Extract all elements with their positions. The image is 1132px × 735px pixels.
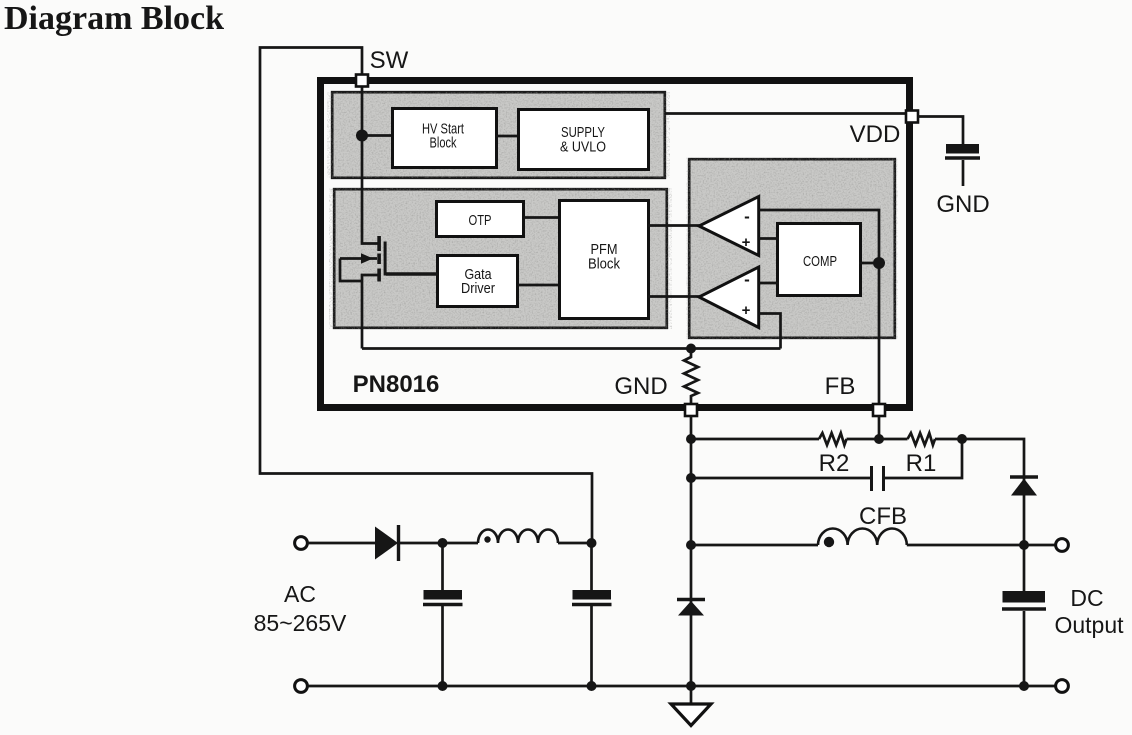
inductor L1 input <box>478 530 558 544</box>
pin FB <box>873 404 885 416</box>
svg-text:VDD: VDD <box>850 121 901 148</box>
node SW/C2 junction <box>587 538 597 548</box>
svg-text:R2: R2 <box>819 450 850 477</box>
body wire with arrow <box>340 257 377 260</box>
right gray box (comparator section) <box>689 159 895 338</box>
wire top feedback rail y439 <box>691 438 819 441</box>
wire SW external loop <box>260 48 592 544</box>
node bottom GND <box>686 681 696 691</box>
wire output rail y545 <box>691 544 818 547</box>
diode D1 input rectifier <box>375 525 399 561</box>
node mid rail left <box>686 473 696 483</box>
wire PFM to lower comparator <box>648 295 700 298</box>
IC PN8016 outline <box>321 81 910 408</box>
svg-text:Driver: Driver <box>461 280 495 297</box>
node output rail left <box>686 540 696 550</box>
svg-text:-: - <box>744 207 750 226</box>
wire HV Start to SUPPLY <box>496 135 518 138</box>
resistor R1 <box>908 433 936 445</box>
svg-text:DC: DC <box>1070 585 1103 611</box>
resistor Rsense vertical <box>684 349 698 405</box>
svg-text:PN8016: PN8016 <box>353 371 440 398</box>
node L2 phase dot <box>824 537 834 547</box>
block SUPPLY & UVLO <box>519 110 649 170</box>
gate bar <box>384 242 387 276</box>
op-amp U1 upper comparator <box>699 197 759 256</box>
node R1 right junction <box>957 434 967 444</box>
wire bottom rail <box>308 685 1056 688</box>
wire supply section to VDD pin <box>665 112 908 115</box>
terminal DC output + <box>1056 539 1069 552</box>
capacitor C-out <box>1002 545 1046 686</box>
upper gray box (startup section) <box>332 92 665 178</box>
diode D2 right (to output) <box>1010 477 1038 496</box>
node bottom C-out <box>1019 681 1029 691</box>
svg-text:+: + <box>742 234 751 251</box>
wire VDD pin to decoupling cap <box>918 117 963 146</box>
terminal DC output - <box>1056 680 1069 693</box>
svg-text:Diagram Block: Diagram Block <box>4 0 224 37</box>
svg-text:FB: FB <box>825 373 856 400</box>
wire lower comparator + input down to sense rail <box>759 314 781 349</box>
pin SW <box>356 75 368 87</box>
wire gate to Gate Driver <box>386 272 438 275</box>
node output/diode junction <box>1019 540 1029 550</box>
wire FB net: upper comparator minus input loop and down to FB pin <box>759 210 879 407</box>
node L1 phase dot <box>484 536 490 542</box>
pin GND <box>685 404 697 416</box>
node GND rail top <box>686 434 696 444</box>
block OTP <box>437 202 524 237</box>
capacitor C-vdd <box>945 144 980 186</box>
svg-text:Block: Block <box>588 256 620 273</box>
resistor R2 <box>819 433 847 445</box>
node COMP output junction <box>873 257 885 269</box>
wire Gate Driver to PFM <box>518 284 559 287</box>
terminal AC bottom <box>295 680 308 693</box>
block HV Start <box>393 109 497 168</box>
wire mid rail with CFB y478 <box>691 477 872 480</box>
node bottom C2 <box>587 681 597 691</box>
inductor L2 output <box>818 529 907 546</box>
svg-text:& UVLO: & UVLO <box>560 139 606 156</box>
wire COMP output to FB line <box>859 262 879 265</box>
svg-text:R1: R1 <box>906 450 937 477</box>
block Gate Driver <box>438 256 518 307</box>
transistor Q1 power MOSFET <box>340 236 387 349</box>
node C1 top junction <box>438 538 448 548</box>
ground symbol <box>671 686 711 726</box>
wire PFM to upper comparator <box>648 224 700 227</box>
wire COMP to upper comparator + input <box>759 237 779 240</box>
capacitor CFB <box>872 466 884 491</box>
svg-text:COMP: COMP <box>803 253 837 270</box>
svg-text:AC: AC <box>284 581 316 607</box>
block PFM Block <box>560 201 649 319</box>
source wire <box>362 275 378 349</box>
svg-text:CFB: CFB <box>859 503 907 530</box>
wire COMP to lower comparator - input <box>759 282 779 285</box>
node SW/HV junction <box>356 130 368 142</box>
wire SW pin to HV Start and MOSFET drain <box>362 80 391 244</box>
wire OTP to PFM <box>524 216 559 219</box>
svg-text:Output: Output <box>1054 612 1124 638</box>
svg-text:OTP: OTP <box>469 212 492 229</box>
capacitor C1 <box>423 543 463 686</box>
body-source loop <box>340 259 362 282</box>
pin VDD <box>906 111 918 123</box>
wire AC top rail <box>308 542 376 545</box>
svg-text:SW: SW <box>370 47 409 74</box>
terminal AC top <box>295 537 308 550</box>
channel dashes <box>377 236 381 251</box>
wire FB pin down to feedback rail <box>878 416 881 439</box>
svg-text:+: + <box>742 302 751 319</box>
svg-text:GND: GND <box>614 373 667 400</box>
svg-text:GND: GND <box>936 191 989 218</box>
svg-text:Block: Block <box>430 135 457 152</box>
wire source sense rail <box>362 347 781 350</box>
diode D3 freewheel (on GND line) <box>677 600 705 616</box>
capacitor C2 <box>572 543 612 686</box>
node sense rail / GND resistor junction <box>686 344 696 354</box>
block COMP <box>778 224 861 296</box>
svg-text:-: - <box>744 270 750 289</box>
wire GND pin down to bottom rail <box>690 416 693 686</box>
op-amp U2 lower comparator <box>699 267 759 328</box>
svg-text:85~265V: 85~265V <box>254 610 347 636</box>
node FB/R junction <box>874 434 884 444</box>
node bottom C1 <box>438 681 448 691</box>
lower gray box (control section) <box>334 189 667 328</box>
